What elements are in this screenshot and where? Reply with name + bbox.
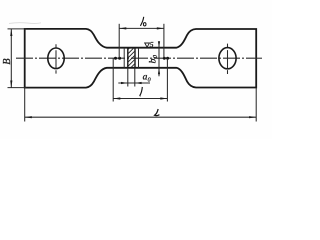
horizontal centerline <box>16 57 262 59</box>
right hole vertical centerline <box>227 44 229 74</box>
dimension B arrowheads <box>10 29 12 88</box>
svg-text:5: 5 <box>150 40 154 49</box>
dimension a0 extension and dimension lines <box>118 68 150 87</box>
svg-text:0: 0 <box>148 78 151 84</box>
dimension L arrowheads <box>25 116 257 118</box>
label a0 <box>143 73 151 84</box>
left hole vertical centerline <box>55 44 57 73</box>
surface finish triangle symbol <box>145 43 150 47</box>
dimension l0 arrowheads <box>119 27 164 29</box>
svg-text:B: B <box>2 59 13 65</box>
dimension b0 line <box>158 42 160 77</box>
faint scan smudge <box>9 22 41 25</box>
dimension l extension and dimension lines <box>113 58 167 101</box>
specimen body outline <box>25 29 257 88</box>
label L <box>155 109 160 116</box>
label l0 <box>140 17 146 26</box>
dimension l arrowheads <box>113 97 167 99</box>
cross-section hatched rectangle <box>124 42 136 75</box>
dimension a0 arrowheads <box>121 82 142 84</box>
gauge point dots on centerline <box>114 57 169 60</box>
right hole <box>219 48 236 69</box>
section slice right edge line <box>138 48 140 68</box>
label l <box>140 87 142 96</box>
dimension b0 arrowheads <box>158 41 160 74</box>
dimension B extension and dimension lines <box>8 29 27 88</box>
dimension L extension and dimension lines <box>25 88 257 122</box>
label b0 <box>148 55 159 63</box>
dimension l0 extension and dimension lines <box>119 24 164 58</box>
section slice left edge line <box>123 48 125 68</box>
svg-text:0: 0 <box>153 55 159 58</box>
left hole <box>48 48 64 69</box>
